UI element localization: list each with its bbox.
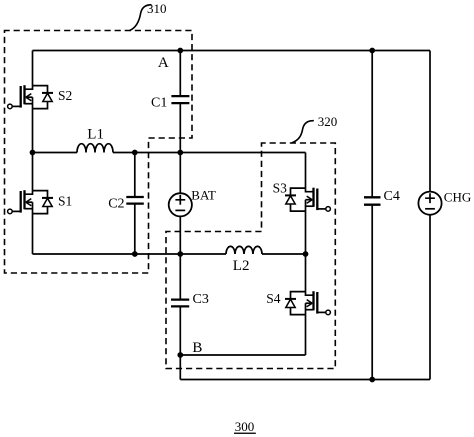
wire S2 drain: [32, 51, 34, 86]
node B junction: [177, 352, 183, 358]
dashed box 320: [166, 143, 335, 369]
wire S1 source to lower rail: [32, 214, 34, 254]
wire S4 source: [305, 315, 307, 355]
capacitor C3: [171, 254, 189, 355]
dashed box 310: [5, 31, 193, 274]
wire lower-left rail: [33, 253, 181, 255]
svg-text:320: 320: [318, 114, 338, 129]
wire S4 drain: [305, 254, 307, 292]
transistor S1: [8, 190, 53, 214]
capacitor C2: [126, 153, 144, 255]
svg-text:S3: S3: [273, 181, 288, 196]
wire B drop: [179, 355, 181, 380]
svg-text:L1: L1: [87, 127, 104, 143]
svg-text:A: A: [158, 55, 169, 71]
svg-text:310: 310: [147, 1, 167, 16]
leader 310: [130, 5, 152, 31]
wire node B rail: [180, 354, 305, 356]
svg-text:C3: C3: [193, 292, 209, 307]
wire mid rail right: [113, 152, 306, 154]
svg-text:CHG: CHG: [444, 189, 471, 204]
svg-text:B: B: [192, 340, 202, 356]
leader 320: [292, 121, 314, 143]
wire bottom rail: [180, 379, 430, 381]
inductor L2: [226, 246, 262, 254]
charger CHG: [418, 51, 441, 380]
transistor S2: [8, 85, 53, 109]
node A junction: [177, 48, 183, 54]
transistor S4: [285, 291, 330, 315]
junction mid rail left: [30, 150, 36, 156]
wire mid rail left: [33, 152, 78, 154]
wire S3 source: [305, 211, 307, 254]
junction top C4: [369, 48, 375, 54]
junction C2 bottom: [132, 251, 138, 257]
junction C4 bottom: [369, 377, 375, 383]
svg-text:S4: S4: [266, 291, 281, 306]
junction C2 top: [132, 150, 138, 156]
wire S1 drain: [32, 153, 34, 191]
junction C1 bottom / BAT top: [177, 150, 183, 156]
svg-text:L2: L2: [233, 258, 250, 274]
capacitor C4: [364, 51, 381, 380]
svg-text:S2: S2: [58, 88, 72, 103]
svg-text:C2: C2: [108, 197, 124, 212]
svg-text:300: 300: [235, 419, 255, 434]
wire top rail: [33, 50, 431, 52]
wire S2 source to mid rail: [32, 109, 34, 153]
inductor L1: [77, 144, 113, 153]
svg-text:C4: C4: [384, 189, 400, 204]
wire L2 right lead: [262, 253, 306, 255]
transistor S3: [285, 188, 330, 212]
svg-text:S1: S1: [58, 193, 72, 208]
battery BAT: [169, 153, 192, 255]
wire S3 drain drop: [305, 153, 307, 189]
capacitor C1: [171, 51, 189, 153]
wire L2 left lead: [180, 253, 226, 255]
svg-text:C1: C1: [151, 95, 167, 110]
junction BAT bottom: [177, 251, 183, 257]
underline 300: [234, 433, 256, 434]
svg-text:BAT: BAT: [191, 188, 216, 203]
junction L2 right / S3-S4: [303, 251, 309, 257]
